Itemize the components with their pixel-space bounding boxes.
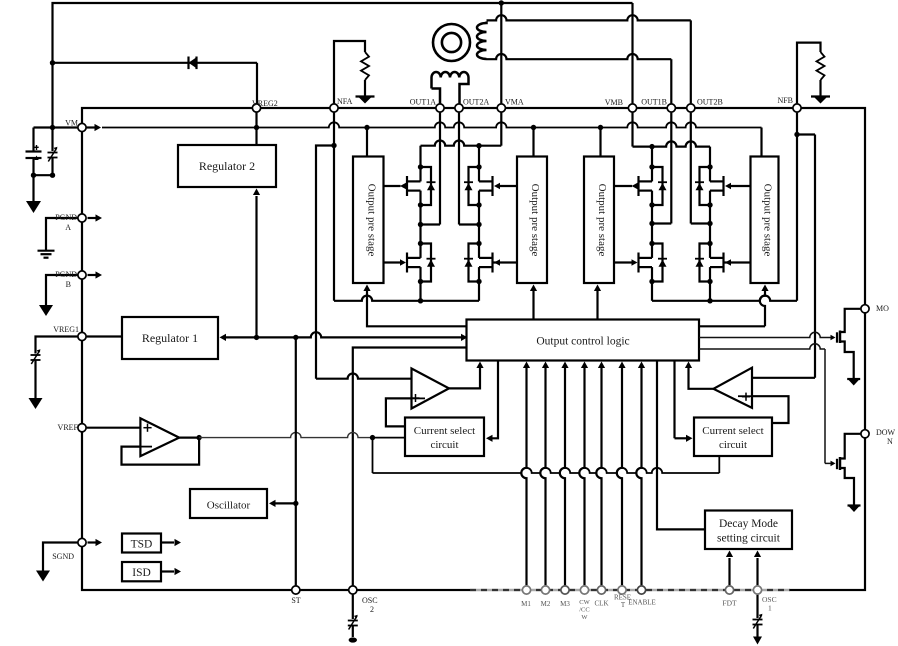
wire pre-stage B-left drive (594, 285, 601, 320)
svg-text:Current select: Current select (414, 425, 475, 437)
svg-text:CW: CW (579, 599, 590, 606)
output pre stage box B-left (584, 157, 614, 284)
wire VMA supply drop (499, 0, 504, 103)
wire comparator B output to control (685, 362, 714, 389)
wire OUT2B to bridge B node (691, 113, 713, 244)
svg-text:PGND: PGND (55, 270, 77, 279)
wire comparator A plus input (386, 398, 412, 426)
wire VMB supply drop (631, 3, 633, 103)
label OSC1 (762, 595, 777, 613)
svg-text:Current select: Current select (702, 425, 763, 437)
IC package boundary box (82, 108, 865, 590)
svg-text:OUT1B: OUT1B (641, 98, 667, 107)
svg-text:PGND: PGND (55, 213, 77, 222)
svg-text:T: T (621, 601, 626, 609)
label VREG2 (252, 99, 278, 108)
wire control to DOWN gate (699, 344, 832, 464)
label SGND (52, 552, 74, 561)
resistor RNF-B with ground (797, 43, 830, 104)
pin OUT1B (667, 104, 675, 112)
svg-text:1: 1 (768, 604, 772, 613)
label ST (291, 596, 300, 605)
pin OSC2 (349, 586, 357, 594)
pin VREG1 (78, 332, 86, 340)
capacitor C-OSC1 with ground (753, 595, 763, 645)
wire OUT1A to bridge A node (418, 113, 440, 244)
wire control to MO gate (699, 332, 831, 337)
label VREG1 (53, 325, 79, 334)
svg-text:A: A (65, 223, 71, 232)
svg-text:CLK: CLK (595, 600, 609, 608)
svg-text:VREF: VREF (58, 423, 79, 432)
svg-text:OUT1A: OUT1A (410, 98, 436, 107)
transistor DOWN output (831, 434, 861, 512)
inductor coil phase A (432, 72, 469, 103)
wire pre-stage B-right drive (699, 285, 769, 327)
svg-text:Output pre stage: Output pre stage (529, 184, 541, 257)
label MO (876, 304, 889, 313)
capacitor C-VREG1 with ground (29, 337, 83, 410)
svg-text:M3: M3 (560, 600, 570, 608)
wire VM supply top rail (53, 3, 633, 128)
svg-text:setting circuit: setting circuit (717, 533, 781, 545)
transistor Q5 bridge B upper-left (632, 164, 668, 207)
svg-text:circuit: circuit (430, 439, 458, 451)
transistor MO output (831, 309, 861, 386)
wires M1 M2 M3 CW CLK RESET ENABLE to control logic (521, 362, 645, 586)
svg-text:NFB: NFB (777, 96, 793, 105)
label VM (65, 119, 78, 128)
ground PGND B external (39, 275, 82, 316)
ground below VM capacitors (26, 175, 41, 213)
wire OSC2 to control logic (353, 348, 467, 586)
comparator A (412, 369, 450, 409)
wire ST line (269, 337, 298, 585)
label PGND A (55, 213, 77, 232)
svg-text:MO: MO (876, 304, 889, 313)
svg-text:FDT: FDT (722, 599, 737, 608)
pin VMB (628, 104, 636, 112)
svg-text:Output pre stage: Output pre stage (596, 184, 608, 257)
wire bridge B source bus to NFB (652, 113, 800, 304)
resistor RNF-A with ground (334, 41, 375, 104)
ISD output arrow (161, 568, 181, 575)
label OUT2A (463, 98, 489, 107)
svg-text:B: B (66, 280, 71, 289)
pin M2 (541, 586, 549, 594)
capacitor C-VM2 (31, 128, 58, 178)
output control logic box (467, 320, 700, 361)
svg-text:M1: M1 (521, 600, 531, 608)
transistor Q4 bridge A lower-right (464, 241, 500, 284)
wire VREF distribution (179, 432, 719, 473)
svg-text:W: W (581, 614, 588, 621)
pin VREF (78, 424, 86, 432)
svg-text:VMB: VMB (605, 98, 623, 107)
pin M1 (522, 586, 530, 594)
svg-text:circuit: circuit (719, 439, 747, 451)
wire OSC1 to decay mode (754, 551, 761, 586)
motor M symbol (433, 24, 470, 61)
pin CW/CCW (580, 586, 588, 594)
wire VREF op-amp feedback (122, 438, 200, 465)
wire comparator A output to control (449, 362, 484, 389)
transistor Q8 bridge B lower-right (695, 241, 731, 284)
pin ST (292, 586, 300, 594)
svg-text:M2: M2 (541, 600, 551, 608)
ground PGND A external (38, 218, 83, 258)
regulator 2 box (178, 145, 276, 187)
transistor Q6 bridge B upper-right (695, 164, 731, 207)
wire regulator bus (220, 332, 468, 341)
label M1 (521, 600, 531, 608)
pin VREG2 (252, 104, 260, 112)
pin PGND A (78, 214, 102, 222)
TSD output arrow (161, 539, 181, 546)
transistor Q3 bridge A lower-left (400, 241, 436, 284)
svg-text:2: 2 (370, 605, 374, 614)
label M2 (541, 600, 551, 608)
label ENABLE (628, 599, 656, 607)
wire coil B top to OUT2B (487, 15, 691, 103)
label NFB (777, 96, 793, 105)
oscillator box (190, 489, 267, 518)
comparator B (714, 368, 753, 408)
gate wires bridge B (614, 186, 751, 263)
wire control to current select A (486, 361, 498, 442)
label NFA (337, 97, 353, 106)
pin ENABLE (637, 586, 645, 594)
wire VMB bridge feed (633, 108, 711, 167)
pin FDT (725, 586, 733, 594)
wire VREG1 pin to regulator 1 (87, 335, 122, 337)
wire control to current select B (675, 361, 693, 442)
label DOWN (876, 428, 896, 446)
svg-text:NFA: NFA (337, 97, 353, 106)
regulator 1 box (122, 317, 218, 359)
svg-text:Regulator 1: Regulator 1 (142, 331, 198, 345)
wire bridge A source bus to NFA (331, 108, 479, 303)
bottom border faded dashes (470, 589, 790, 592)
label VREF (58, 423, 79, 432)
svg-text:N: N (887, 437, 893, 446)
TSD box (122, 534, 161, 553)
svg-text:TSD: TSD (131, 539, 153, 551)
op-amp VREF buffer (140, 418, 179, 456)
current select circuit A box (405, 418, 484, 457)
wire VREF pin to op-amp (87, 427, 141, 429)
pin NFA (330, 104, 338, 112)
svg-text:Output pre stage: Output pre stage (762, 184, 774, 257)
pin SGND (78, 538, 102, 546)
pin NFB (793, 104, 801, 112)
pin OSC1 (753, 586, 761, 594)
pin PGND B (78, 271, 102, 279)
svg-text:SGND: SGND (52, 552, 74, 561)
capacitor C-VM electrolytic (26, 125, 83, 175)
svg-text:ISD: ISD (132, 567, 151, 579)
decay mode setting circuit box (705, 511, 792, 550)
diode D1 supply to VREG2 (50, 57, 257, 104)
svg-text:Regulator 2: Regulator 2 (199, 159, 255, 173)
wire OUT1B to bridge B node (649, 113, 671, 244)
pin VMA (497, 104, 505, 112)
label OUT1A (410, 98, 436, 107)
ground SGND external (36, 543, 82, 582)
transistor Q7 bridge B lower-left (632, 241, 668, 284)
svg-text:ENABLE: ENABLE (628, 599, 656, 607)
wire NFA to comparator A (316, 146, 412, 379)
transistor Q1 bridge A upper-left (400, 164, 436, 207)
wire OUT2A to bridge A node (459, 113, 482, 244)
output pre stage box B-right (751, 157, 779, 284)
svg-text:Output pre stage: Output pre stage (365, 184, 377, 257)
pin CLK (597, 586, 605, 594)
ISD box (122, 562, 161, 581)
output pre stage box A-right (517, 157, 547, 284)
wire comparator B plus input (752, 396, 789, 423)
wire FDT to decay mode (726, 551, 733, 586)
label CW/CCW (579, 599, 590, 621)
pin OUT2A (455, 104, 463, 112)
label M3 (560, 600, 570, 608)
svg-text:VM: VM (65, 119, 78, 128)
wire control to decay mode (657, 361, 705, 530)
pin MO (861, 305, 869, 313)
output pre stage box A-left (353, 157, 384, 284)
label CLK (595, 600, 609, 608)
label FDT (722, 599, 737, 608)
svg-text:/CC: /CC (579, 607, 589, 614)
wire NFB to comparator B (752, 135, 815, 378)
label VMB (605, 98, 623, 107)
label PGND B (55, 270, 77, 289)
pin OUT2B (687, 104, 695, 112)
label OUT2B (697, 98, 723, 107)
capacitor C-OSC2 with ground (348, 595, 358, 643)
pin M3 (561, 586, 569, 594)
label RESET (614, 594, 631, 610)
current select circuit B box (694, 418, 772, 457)
gate wires bridge A (384, 186, 518, 263)
svg-text:DOW: DOW (876, 428, 896, 437)
svg-text:Decay Mode: Decay Mode (719, 518, 778, 530)
pin DOWN (861, 430, 869, 438)
label OSC2 (362, 596, 378, 614)
svg-text:VMA: VMA (505, 98, 524, 107)
pin VM (78, 123, 101, 131)
inductor coil phase B (477, 22, 487, 60)
svg-text:ST: ST (291, 596, 300, 605)
wire regulator2 feed (253, 189, 260, 338)
wire pre-stage A-right drive (530, 285, 537, 320)
svg-text:OUT2A: OUT2A (463, 98, 489, 107)
wire VMA bridge feed (421, 108, 502, 167)
svg-text:VREG2: VREG2 (252, 99, 278, 108)
label OUT1B (641, 98, 667, 107)
svg-text:Oscillator: Oscillator (207, 500, 251, 512)
transistor Q2 bridge A upper-right (464, 164, 500, 207)
svg-text:VREG1: VREG1 (53, 325, 79, 334)
label VMA (505, 98, 524, 107)
pin RESET (618, 586, 626, 594)
svg-text:OSC: OSC (362, 596, 378, 605)
pin OUT1A (436, 104, 444, 112)
wire VREG2 internal bus (102, 108, 762, 157)
wire coil B bottom to OUT1B (487, 54, 672, 103)
wire pre-stage A-left drive (363, 285, 466, 327)
svg-text:OUT2B: OUT2B (697, 98, 723, 107)
svg-text:Output control logic: Output control logic (536, 336, 629, 348)
